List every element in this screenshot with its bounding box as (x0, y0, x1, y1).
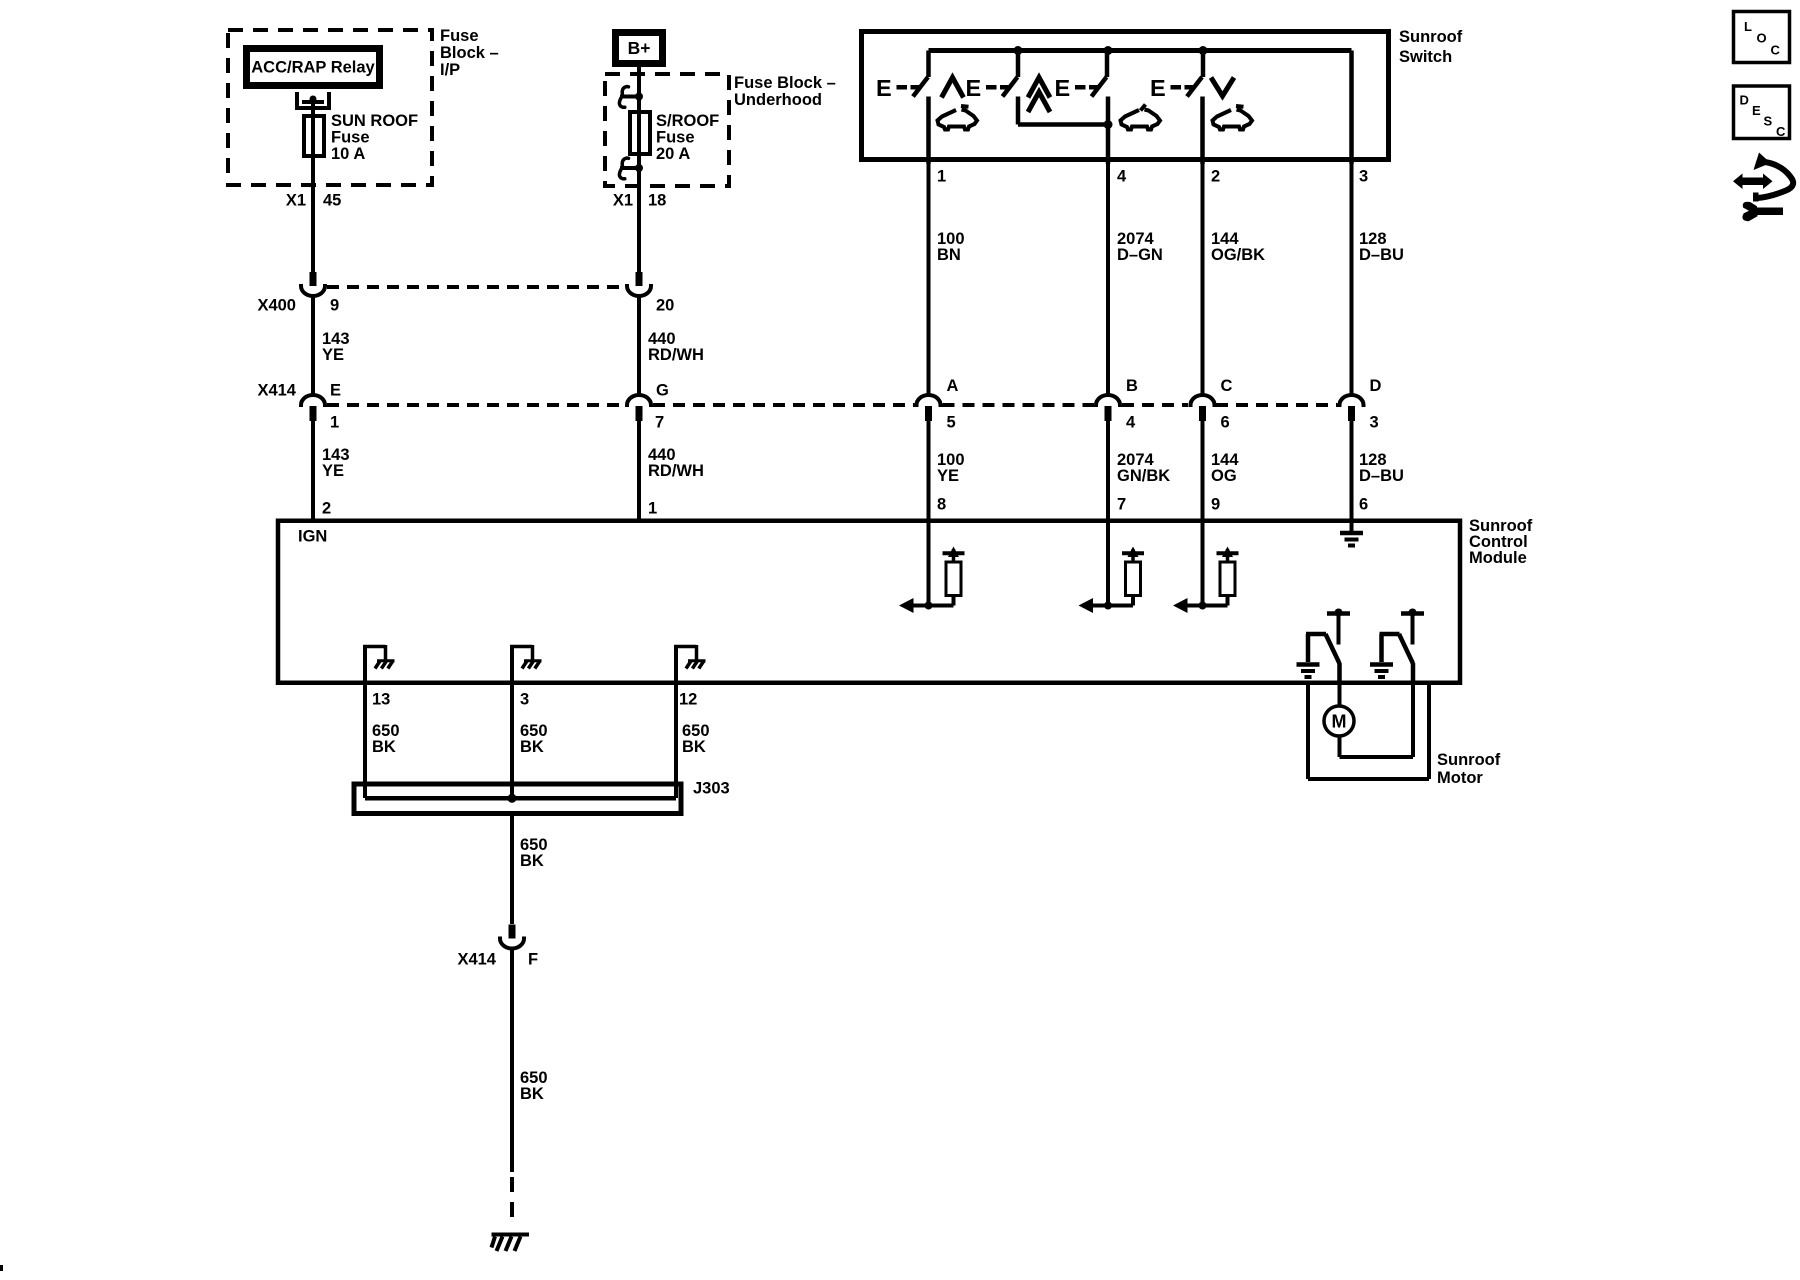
svg-text:BN: BN (937, 246, 961, 264)
svg-text:Sunroof: Sunroof (1399, 28, 1463, 46)
svg-text:X400: X400 (257, 297, 296, 315)
svg-text:3: 3 (1359, 168, 1368, 186)
svg-text:8: 8 (937, 496, 946, 514)
svg-text:A: A (947, 377, 959, 395)
svg-text:Motor: Motor (1437, 769, 1483, 787)
svg-text:6: 6 (1221, 414, 1230, 432)
svg-text:E: E (876, 75, 892, 101)
svg-text:Fuse: Fuse (440, 27, 479, 45)
svg-text:OG/BK: OG/BK (1211, 246, 1265, 264)
svg-text:6: 6 (1359, 496, 1368, 514)
svg-text:D–BU: D–BU (1359, 246, 1404, 264)
svg-text:45: 45 (323, 192, 341, 210)
svg-text:Fuse Block –: Fuse Block – (734, 74, 836, 92)
svg-text:18: 18 (648, 192, 666, 210)
svg-text:1: 1 (648, 500, 657, 518)
svg-text:G: G (656, 382, 669, 400)
svg-text:S: S (1764, 114, 1773, 129)
svg-text:E: E (966, 75, 982, 101)
svg-text:Block –: Block – (440, 44, 499, 62)
svg-text:ACC/RAP Relay: ACC/RAP Relay (251, 59, 375, 77)
svg-text:S/ROOF: S/ROOF (656, 112, 719, 130)
svg-text:20 A: 20 A (656, 145, 690, 163)
svg-text:X414: X414 (457, 951, 496, 969)
svg-text:9: 9 (1211, 496, 1220, 514)
svg-text:3: 3 (520, 691, 529, 709)
svg-text:D–BU: D–BU (1359, 467, 1404, 485)
svg-text:Switch: Switch (1399, 48, 1452, 66)
svg-text:BK: BK (682, 738, 706, 756)
svg-text:YE: YE (937, 467, 959, 485)
svg-text:GN/BK: GN/BK (1117, 467, 1170, 485)
svg-text:Sunroof: Sunroof (1437, 751, 1501, 769)
svg-text:20: 20 (656, 297, 674, 315)
svg-text:1: 1 (330, 414, 339, 432)
svg-text:C: C (1776, 124, 1786, 139)
svg-text:1: 1 (937, 168, 946, 186)
svg-text:D: D (1370, 377, 1382, 395)
svg-text:D: D (1740, 93, 1749, 108)
svg-text:13: 13 (372, 691, 390, 709)
svg-text:2: 2 (1211, 168, 1220, 186)
svg-text:B+: B+ (628, 38, 651, 58)
svg-text:X1: X1 (613, 192, 633, 210)
svg-text:OG: OG (1211, 467, 1237, 485)
svg-text:BK: BK (520, 1085, 544, 1103)
svg-text:RD/WH: RD/WH (648, 462, 704, 480)
svg-text:BK: BK (520, 738, 544, 756)
svg-text:O: O (1757, 31, 1767, 46)
svg-text:E: E (1150, 75, 1166, 101)
svg-text:E: E (1752, 103, 1761, 118)
svg-text:E: E (1055, 75, 1071, 101)
svg-text:X1: X1 (286, 192, 306, 210)
svg-text:X414: X414 (257, 382, 296, 400)
svg-text:4: 4 (1126, 414, 1136, 432)
svg-text:3: 3 (1370, 414, 1379, 432)
svg-text:10 A: 10 A (331, 145, 365, 163)
svg-text:SUN ROOF: SUN ROOF (331, 112, 418, 130)
svg-text:7: 7 (1117, 496, 1126, 514)
svg-text:7: 7 (655, 414, 664, 432)
svg-text:D–GN: D–GN (1117, 246, 1163, 264)
svg-text:F: F (528, 951, 538, 969)
svg-text:Underhood: Underhood (734, 91, 822, 109)
svg-text:2: 2 (322, 500, 331, 518)
svg-text:4: 4 (1117, 168, 1127, 186)
svg-text:YE: YE (322, 346, 344, 364)
svg-text:Fuse: Fuse (331, 128, 370, 146)
svg-text:Module: Module (1469, 549, 1527, 567)
svg-text:Fuse: Fuse (656, 128, 695, 146)
svg-text:RD/WH: RD/WH (648, 346, 704, 364)
svg-text:M: M (1332, 712, 1347, 732)
svg-text:E: E (330, 382, 341, 400)
svg-text:L: L (1744, 19, 1752, 34)
svg-text:5: 5 (947, 414, 956, 432)
svg-text:BK: BK (372, 738, 396, 756)
svg-text:9: 9 (330, 297, 339, 315)
svg-text:BK: BK (520, 852, 544, 870)
svg-text:IGN: IGN (298, 528, 327, 546)
svg-text:C: C (1771, 43, 1781, 58)
svg-text:C: C (1221, 377, 1233, 395)
svg-text:YE: YE (322, 462, 344, 480)
svg-text:12: 12 (679, 691, 697, 709)
svg-text:B: B (1126, 377, 1138, 395)
svg-text:I/P: I/P (440, 61, 460, 79)
svg-text:J303: J303 (693, 780, 730, 798)
